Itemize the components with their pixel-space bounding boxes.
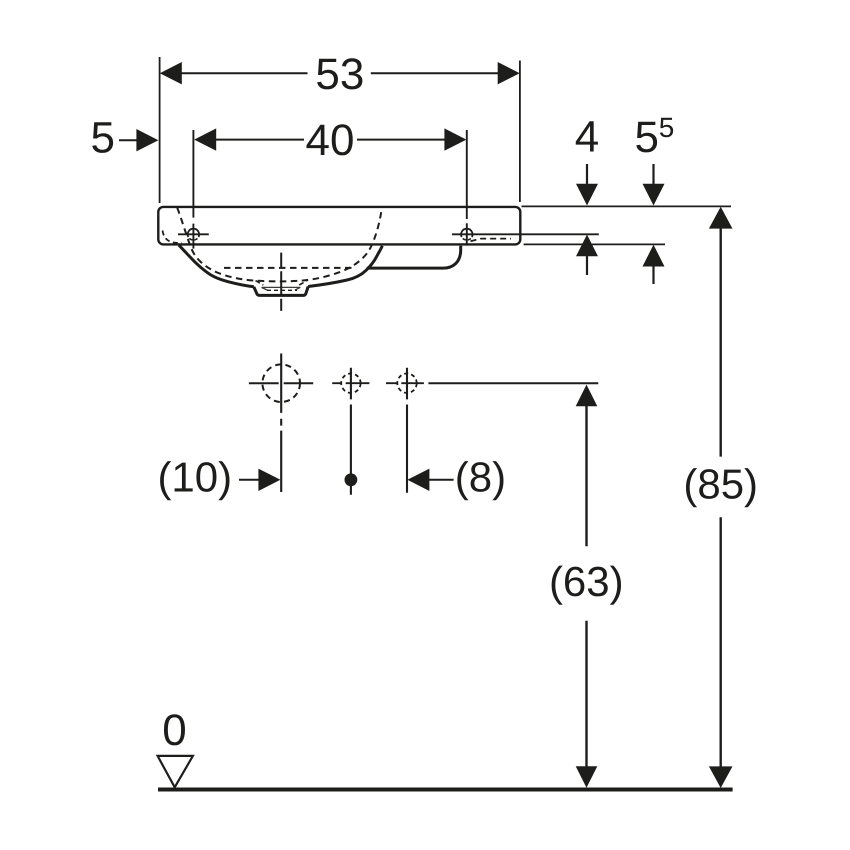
- svg-text:0: 0: [162, 706, 186, 755]
- tap hole right circle: [461, 229, 472, 237]
- svg-text:4: 4: [575, 112, 599, 161]
- basin rim slab: [158, 207, 520, 245]
- dimension 53 extension right: [519, 61, 521, 203]
- svg-text:5: 5: [659, 112, 675, 143]
- drain recess connectors dashed: [256, 280, 308, 285]
- dimension 53 extension left: [159, 57, 161, 203]
- faucet symbol middle cross horizontal: [332, 382, 369, 384]
- svg-text:5: 5: [635, 113, 659, 162]
- arrow 53 right: [498, 62, 520, 84]
- bowl outer profile left: [179, 245, 254, 287]
- svg-text:(10): (10): [157, 454, 232, 501]
- drain boss interior line: [262, 286, 301, 288]
- dimension 40 line: [216, 139, 445, 141]
- dimension 8 line: [429, 479, 454, 481]
- bowl outer profile right: [308, 246, 382, 287]
- faucet symbol middle center line: [350, 368, 352, 495]
- tap hole left circle: [188, 229, 199, 237]
- reference line 5.5 depth: [524, 243, 665, 245]
- faucet symbol right center line: [406, 368, 408, 493]
- dimension 5 line: [119, 139, 137, 141]
- svg-text:5: 5: [90, 114, 114, 163]
- hidden edge line dashed: [224, 267, 353, 269]
- faucet reference dot: [345, 473, 358, 486]
- bowl inner wall dashed: [177, 208, 382, 282]
- arrow 40 right: [444, 128, 466, 150]
- arrow 5: [136, 129, 158, 151]
- arrow 85 up: [709, 207, 733, 229]
- faucet symbol middle circle: [341, 374, 360, 393]
- tap hole left cross horizontal: [178, 233, 209, 235]
- svg-text:(85): (85): [683, 460, 758, 507]
- faucet symbol large circle: [262, 364, 300, 402]
- dimension 53 line: [181, 72, 498, 74]
- reference line 4 depth: [452, 233, 599, 235]
- faucet symbol large center line: [280, 354, 282, 493]
- tap hole left center line: [192, 130, 194, 249]
- arrow 63 up: [576, 385, 598, 407]
- hidden corner left dashed: [163, 231, 183, 244]
- faucet symbol large cross horizontal: [249, 382, 313, 384]
- label 4 arrow shaft down: [586, 164, 588, 185]
- arrow 40 left: [194, 128, 216, 150]
- svg-text:53: 53: [315, 50, 364, 99]
- dimension 63 line: [585, 406, 587, 768]
- svg-text:40: 40: [306, 116, 355, 165]
- arrow 10 right: [258, 469, 280, 491]
- reference line top surface: [522, 205, 732, 207]
- drain boss interior diagonals: [262, 287, 301, 290]
- label 4 arrow shaft up: [586, 256, 588, 276]
- arrow 8 left: [407, 469, 429, 491]
- arrow 63 down: [576, 766, 598, 788]
- arrow 85 down: [709, 766, 733, 788]
- shelf under rim right: [367, 246, 461, 268]
- label 55 arrow shaft down: [652, 164, 654, 185]
- arrow 55 down: [643, 184, 665, 206]
- svg-text:(8): (8): [455, 454, 506, 501]
- hidden ledge edge right dashed: [471, 239, 512, 242]
- label 55 arrow shaft up: [652, 266, 654, 284]
- arrow 4 down: [576, 184, 598, 206]
- dimension 10 line: [239, 479, 259, 481]
- arrow 53 left: [160, 62, 182, 84]
- svg-text:(63): (63): [549, 558, 624, 605]
- faucet symbol right cross horizontal: [386, 382, 424, 384]
- drain boss interior dashed bottom: [267, 289, 297, 291]
- dimension 85 line: [720, 228, 722, 768]
- drain center line: [280, 253, 282, 311]
- faucet symbol right circle: [397, 374, 416, 393]
- tap hole right center line: [466, 130, 468, 245]
- drain boss: [254, 287, 308, 296]
- arrow 4 up: [576, 235, 598, 257]
- datum triangle: [158, 756, 193, 787]
- faucet reference line horizontal: [428, 382, 598, 384]
- arrow 55 up: [643, 245, 665, 267]
- floor line: [158, 788, 733, 792]
